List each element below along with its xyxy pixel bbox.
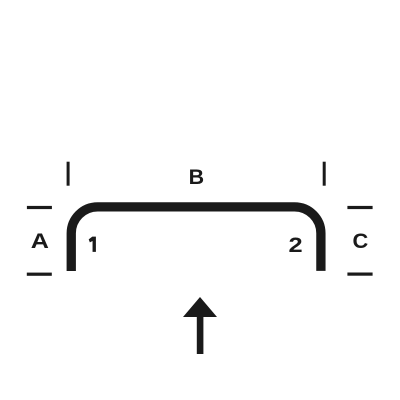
bracket outline (staple shape) xyxy=(71,207,321,271)
label 1 xyxy=(89,237,96,252)
svg-text:B: B xyxy=(189,166,204,189)
svg-text:2: 2 xyxy=(288,233,302,256)
svg-text:C: C xyxy=(353,230,369,253)
arrow shaft xyxy=(197,316,204,354)
right tick mark xyxy=(323,162,326,186)
left upper dash xyxy=(27,206,52,209)
right upper dash xyxy=(347,206,372,209)
right lower dash xyxy=(347,273,372,276)
left tick mark xyxy=(67,162,70,186)
svg-text:A: A xyxy=(31,229,50,252)
left lower dash xyxy=(27,273,52,276)
arrow head xyxy=(183,297,217,317)
